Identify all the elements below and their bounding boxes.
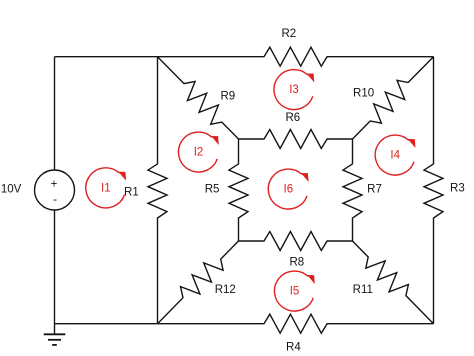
svg-text:I3: I3 xyxy=(289,84,299,96)
svg-text:R6: R6 xyxy=(285,112,300,124)
svg-text:I5: I5 xyxy=(290,286,300,298)
svg-text:R3: R3 xyxy=(450,183,465,195)
svg-text:R7: R7 xyxy=(367,183,382,195)
svg-text:R12: R12 xyxy=(215,284,236,296)
svg-text:R5: R5 xyxy=(205,183,220,195)
svg-text:R11: R11 xyxy=(353,284,373,296)
svg-text:R8: R8 xyxy=(289,257,304,269)
svg-text:-: - xyxy=(53,194,57,206)
svg-text:I4: I4 xyxy=(390,150,400,162)
svg-text:I1: I1 xyxy=(101,183,111,195)
svg-text:R9: R9 xyxy=(220,91,235,103)
svg-text:+: + xyxy=(51,179,58,191)
svg-text:R4: R4 xyxy=(286,341,301,353)
svg-text:R10: R10 xyxy=(353,87,374,99)
svg-text:10V: 10V xyxy=(1,184,22,196)
svg-text:R2: R2 xyxy=(281,28,296,40)
svg-text:I2: I2 xyxy=(194,147,204,159)
svg-text:I6: I6 xyxy=(284,184,294,196)
svg-text:R1: R1 xyxy=(124,186,139,198)
